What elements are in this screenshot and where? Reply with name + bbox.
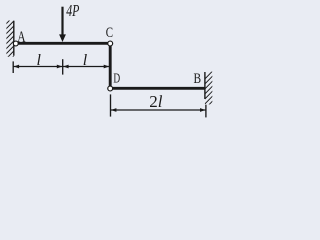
tick at middle [62, 59, 64, 74]
svg-text:D: D [113, 72, 120, 87]
force arrow 4P [59, 7, 66, 42]
svg-text:4P: 4P [66, 1, 79, 20]
label 2l [149, 92, 163, 111]
label 4P [66, 1, 79, 20]
dimension line D to B [111, 94, 206, 117]
tick at D [110, 94, 112, 116]
svg-text:C: C [106, 25, 113, 41]
label l (left span) [37, 52, 42, 69]
beam AC [15, 42, 111, 45]
svg-text:2l: 2l [149, 92, 163, 111]
tick at A [12, 61, 14, 73]
pin C [108, 41, 113, 46]
beam DB [110, 87, 205, 90]
svg-text:A: A [17, 29, 26, 46]
dimension line A to C (two segments) [13, 59, 109, 74]
member CD [109, 43, 112, 88]
wall support A (hatched) [5, 16, 14, 65]
pin A [13, 41, 18, 46]
tick at B [205, 105, 207, 118]
wall support B (hatched) [205, 70, 214, 109]
label D [113, 72, 120, 87]
label l (right span) [83, 52, 88, 69]
label A [17, 29, 26, 46]
label B [194, 71, 202, 87]
label C [106, 25, 113, 41]
svg-text:l: l [37, 52, 42, 69]
svg-text:B: B [194, 71, 202, 87]
dimension arrowheads D-B [111, 108, 206, 112]
dimension arrowheads A-C [14, 65, 110, 69]
svg-text:l: l [83, 52, 88, 69]
pin D [108, 86, 113, 91]
